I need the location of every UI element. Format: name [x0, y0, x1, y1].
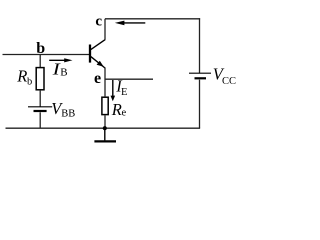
- label IB arrow: [49, 58, 72, 62]
- wire: emitter output stub: [105, 78, 153, 80]
- svg-text:e: e: [94, 70, 101, 87]
- wire: collector riser: [104, 19, 106, 40]
- svg-text:R: R: [111, 100, 122, 119]
- svg-text:e: e: [122, 108, 127, 119]
- node junction dot: [103, 126, 107, 130]
- transistor Q1 (NPN): [90, 40, 105, 68]
- svg-text:B: B: [60, 66, 67, 78]
- label Rb: [16, 67, 32, 88]
- resistor Re: [102, 97, 108, 114]
- wire: VBB bottom lead: [39, 112, 41, 128]
- svg-text:b: b: [36, 40, 45, 57]
- wire: right vertical top (to VCC): [199, 18, 201, 73]
- label VBB: [51, 99, 75, 120]
- svg-text:c: c: [95, 13, 102, 29]
- label IE arrow: [111, 80, 116, 101]
- label Re: [111, 100, 127, 119]
- svg-text:CC: CC: [222, 76, 236, 87]
- wire: Re bottom lead: [104, 115, 106, 128]
- svg-text:R: R: [16, 67, 27, 86]
- wire: top wire: [105, 18, 200, 20]
- battery VCC: [189, 73, 211, 78]
- battery VBB: [28, 107, 52, 111]
- label IE: [115, 77, 127, 99]
- wire: Rb top lead: [39, 55, 41, 68]
- wire: Rb to VBB lead: [39, 91, 41, 107]
- wire: right vertical bottom (VCC to ground rail): [199, 80, 201, 129]
- label current arrow on top wire: [115, 21, 146, 26]
- label VCC: [213, 65, 236, 87]
- wire: emitter vertical: [104, 68, 106, 97]
- resistor Rb: [36, 68, 44, 90]
- svg-text:b: b: [27, 77, 32, 88]
- label IB: [51, 61, 67, 79]
- ground: [94, 128, 116, 141]
- wire: base input wire: [3, 54, 90, 56]
- wire: bottom rail: [6, 127, 201, 129]
- svg-text:BB: BB: [61, 109, 75, 120]
- svg-text:E: E: [121, 87, 127, 98]
